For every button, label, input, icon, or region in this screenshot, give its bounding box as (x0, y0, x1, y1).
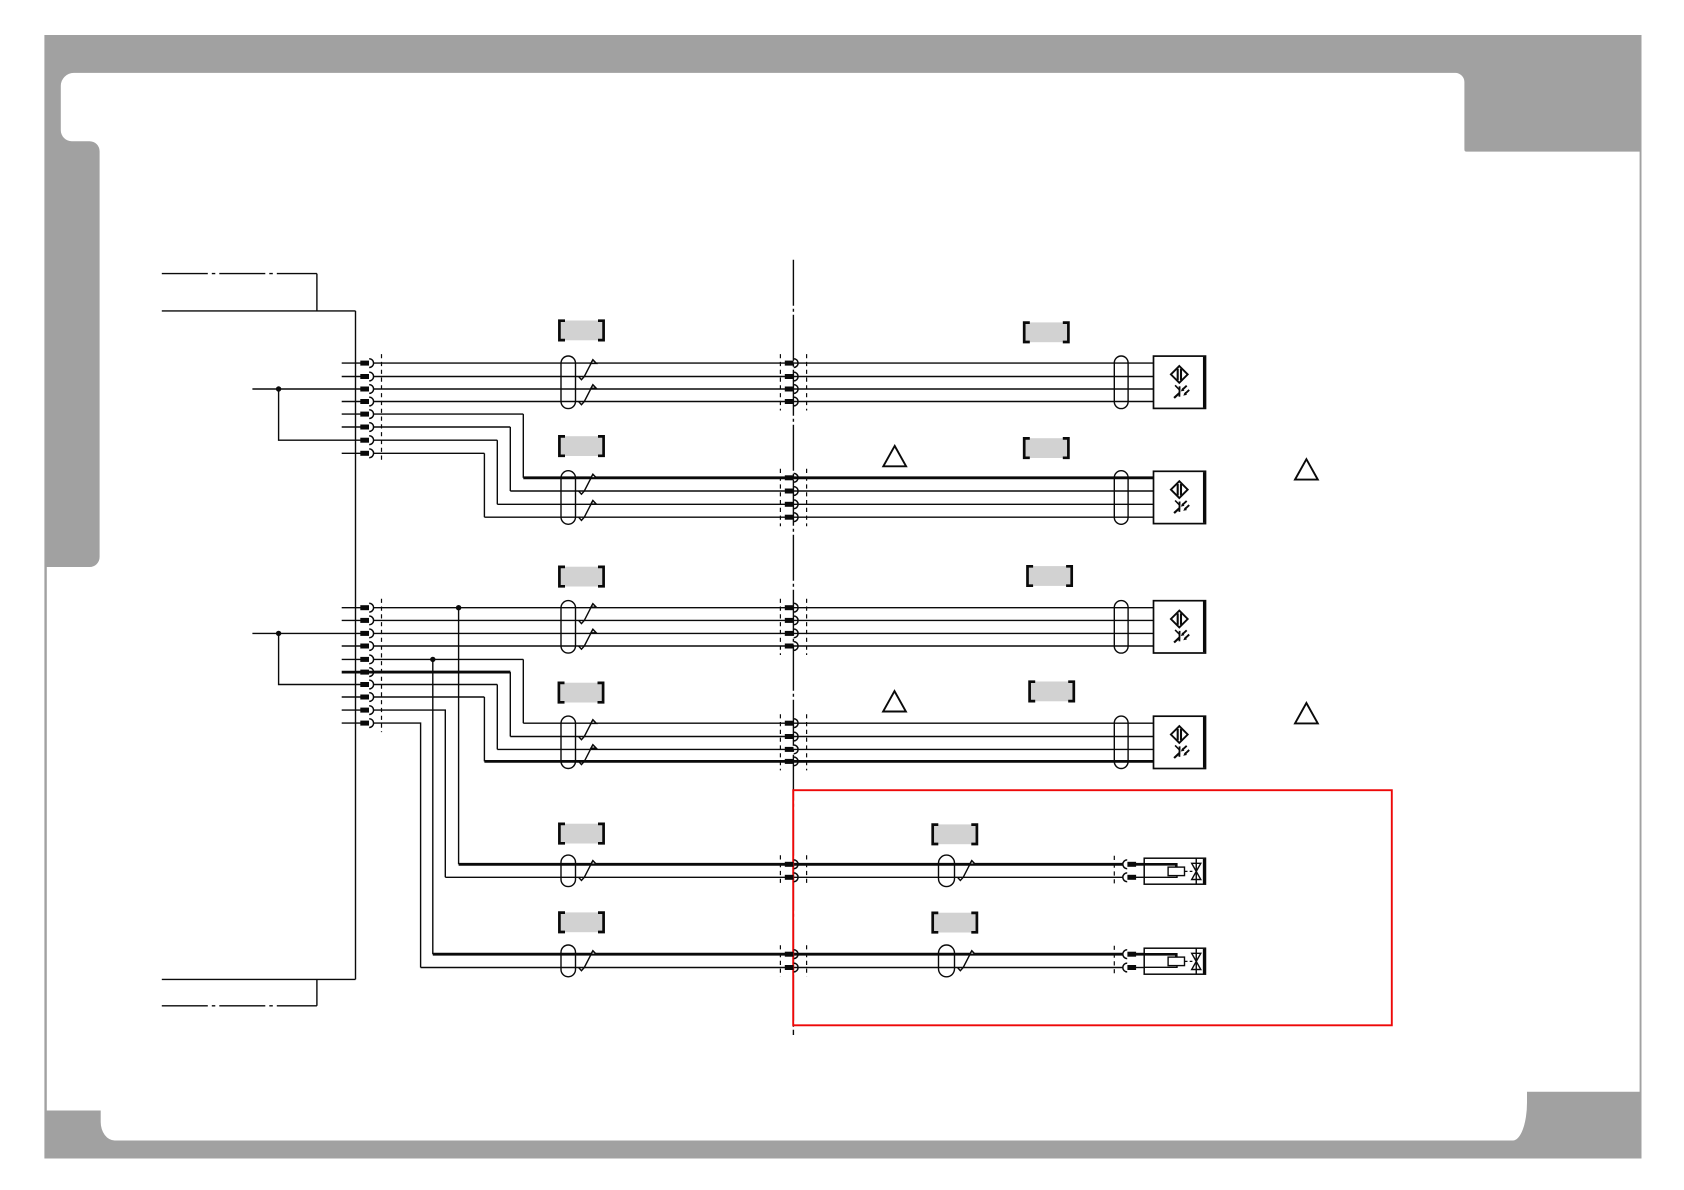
cable tie label R1 (1024, 322, 1068, 342)
wire run5-B to solenoid SL1 (445, 876, 1123, 878)
wire run2-3 horizontal from CN1 pin 7 (374, 439, 498, 441)
wire run2-4 vertical drop (483, 453, 485, 517)
input wire to CN1 pin 3 (252, 388, 361, 390)
wire run3-3 CN2 pin 3 to sensor PS3 (374, 632, 1154, 634)
connector CN1 pin 3 (360, 385, 373, 394)
connector CN2 pin 10 (360, 719, 373, 728)
red highlight outline around solenoid circuits (793, 790, 1392, 1025)
wire run4-4 vertical drop (483, 697, 485, 761)
wire run4-3 to sensor PS4 (497, 748, 1153, 750)
cable clamp right run3 (1114, 601, 1128, 654)
cable tie label L2 (559, 436, 603, 456)
connector J6 inline pin 1 (785, 950, 798, 959)
wire SL2 pin1 to body (1136, 953, 1144, 956)
cable tie label M5 (933, 824, 977, 844)
photo sensor PS1 (1154, 356, 1206, 408)
warning triangle 2 (1295, 459, 1318, 479)
wire run2-1 to sensor PS2 (523, 476, 1153, 479)
wire run4-2 horizontal from CN2 pin 6 (374, 671, 511, 674)
wire stub CN2 pin 1 (342, 607, 361, 609)
harness box 1 right edge (316, 274, 318, 311)
wire run2-2 horizontal from CN1 pin 6 (374, 426, 511, 428)
wire run5-A to solenoid SL1 (459, 863, 1123, 866)
connector J1 boundary dashes left (779, 354, 781, 410)
wire run4-4 horizontal from CN2 pin 8 (374, 696, 485, 698)
cable tie label L4 (559, 683, 603, 703)
junction node on CN1 pin 3 wire (276, 386, 281, 391)
connector CN2 pin 2 (360, 616, 373, 625)
harness box 2 right edge (316, 979, 318, 1005)
connector J4 inline pin 1 (785, 719, 798, 728)
solenoid SL2 pin 2 (1123, 963, 1136, 972)
harness box 2 bottom edge (dash-dot) (162, 1005, 317, 1007)
cable tie label R4 (1030, 682, 1074, 702)
connector J5 inline pin 1 (785, 860, 798, 869)
wire stub CN2 pin 8 (342, 696, 361, 698)
twist mark run4 pair B (579, 745, 597, 765)
harness box 1 bottom edge / feed to bus (162, 310, 356, 312)
twist mark run1 pair A (579, 360, 597, 380)
twist mark run2 pair B (579, 501, 597, 521)
warning triangle 1 (883, 446, 906, 466)
connector J3 inline pin 1 (785, 603, 798, 612)
wire SL2 pin2 to body (1136, 967, 1144, 969)
connector J5 boundary dashes right (806, 855, 808, 886)
solenoid SL1 body (1144, 858, 1205, 884)
wire run6-A vertical from junction (432, 659, 434, 954)
solenoid SL2 connector dashes (1113, 946, 1115, 976)
wire stub CN2 pin 2 (342, 619, 361, 621)
cable clamp left run5 (561, 855, 576, 887)
wire run5-B from CN2 pin 9 (374, 710, 446, 877)
wire run2-1 horizontal from CN1 pin 5 (374, 413, 524, 415)
harness box 2 top edge / feed from bus (162, 978, 356, 980)
connector CN1 boundary (dashed) (381, 354, 383, 462)
connector J2 inline pin 3 (785, 500, 798, 509)
cable clamp left run2 (561, 471, 576, 525)
cable clamp left run4 (561, 716, 576, 768)
connector J6 boundary dashes right (806, 945, 808, 976)
cable tie label R3 (1028, 566, 1072, 586)
connector J4 inline pin 3 (785, 745, 798, 754)
connector J2 inline pin 2 (785, 487, 798, 496)
twist mark run5 left (579, 861, 597, 881)
wire run2-4 to sensor PS2 (484, 516, 1153, 518)
twist mark run3 pair B (579, 629, 597, 649)
wire run4-2 to sensor PS4 (510, 736, 1153, 738)
harness box 1 top edge (dash-dot) (162, 273, 317, 275)
wire run3-4 CN2 pin 4 to sensor PS3 (374, 645, 1154, 647)
cable tie label R2 (1024, 438, 1068, 458)
warning triangle 3 (883, 691, 906, 711)
wire run6-A to solenoid SL2 (433, 953, 1123, 956)
wire run6-B from CN2 pin 10 (374, 723, 421, 967)
wire run4-1 to sensor PS4 (523, 722, 1153, 724)
cable clamp right run1 (1114, 356, 1128, 409)
wire run4-1 vertical drop (522, 659, 524, 723)
cable clamp right run4 (1114, 716, 1128, 768)
connector CN2 pin 6 (360, 668, 373, 677)
connector J3 boundary dashes right (806, 599, 808, 655)
wire run5-A vertical from junction (458, 608, 460, 865)
wire stub CN1 pin 1 (342, 362, 361, 364)
connector J3 inline pin 3 (785, 629, 798, 638)
warning triangle 4 (1295, 703, 1318, 723)
cable tie label L1 (559, 321, 603, 341)
wire run1-4 CN1 pin 4 to sensor PS1 (374, 401, 1154, 403)
connector CN2 pin 1 (360, 603, 373, 612)
twist mark run5 mid (958, 861, 976, 881)
connector CN1 pin 4 (360, 397, 373, 406)
twist mark run4 pair A (579, 720, 597, 740)
connector CN1 pin 2 (360, 372, 373, 381)
junction node run4-1 to solenoid SL2 branch (430, 657, 435, 662)
cable clamp mid run6 (939, 945, 955, 977)
connector J2 boundary dashes right (806, 469, 808, 526)
cable clamp left run3 (561, 601, 576, 654)
branch wire to CN1 pin 7 (279, 389, 361, 440)
cable tie label L6 (559, 912, 603, 932)
wire stub CN2 pin 9 (342, 709, 361, 711)
solenoid SL1 pin 1 (1123, 860, 1136, 869)
wire run1-3 CN1 pin 3 to sensor PS1 (374, 388, 1154, 390)
connector J6 inline pin 2 (785, 963, 798, 972)
wire run4-1 horizontal from CN2 pin 5 (374, 658, 524, 660)
twist mark run6 left (579, 951, 597, 971)
wire stub CN1 pin 8 (342, 452, 361, 454)
wire run1-2 CN1 pin 2 to sensor PS1 (374, 376, 1154, 378)
connector CN1 pin 7 (360, 436, 373, 445)
twist mark run1 pair B (579, 385, 597, 405)
wire stub CN2 pin 10 (342, 722, 361, 724)
cable clamp mid run5 (939, 855, 955, 887)
cable tie label L5 (559, 824, 603, 844)
connector J3 inline pin 2 (785, 616, 798, 625)
wire SL1 pin2 to body (1136, 876, 1144, 878)
connector J3 inline pin 4 (785, 642, 798, 651)
photo sensor PS3 (1154, 601, 1206, 653)
connector CN1 pin 6 (360, 423, 373, 432)
twist mark run6 mid (958, 951, 976, 971)
cable clamp right run2 (1114, 471, 1128, 525)
connector J2 boundary dashes left (779, 469, 781, 526)
wire stub CN1 pin 6 (342, 426, 361, 428)
input wire to CN2 pin 3 (252, 632, 361, 634)
wire run2-3 vertical drop (496, 440, 498, 504)
twist mark run3 pair A (579, 604, 597, 624)
cable tie label L3 (559, 567, 603, 587)
photo sensor PS4 (1154, 716, 1206, 768)
wire run6-B to solenoid SL2 (421, 967, 1123, 969)
connector J4 boundary dashes left (779, 714, 781, 770)
cable clamp left run6 (561, 945, 576, 977)
wire run3-1 CN2 pin 1 to sensor PS3 (374, 607, 1154, 609)
wire stub CN2 pin 4 (342, 645, 361, 647)
cable tie label M6 (933, 913, 977, 933)
connector CN1 pin 8 (360, 449, 373, 458)
connector J1 inline pin 4 (785, 397, 798, 406)
wire run2-4 horizontal from CN1 pin 8 (374, 452, 485, 454)
connector J1 boundary dashes right (806, 354, 808, 410)
connector J1 inline pin 1 (785, 359, 798, 368)
wire run4-3 vertical drop (496, 685, 498, 750)
connector CN2 pin 4 (360, 642, 373, 651)
connector CN2 pin 9 (360, 706, 373, 715)
connector J5 inline pin 2 (785, 873, 798, 882)
solenoid SL1 connector dashes (1113, 856, 1115, 886)
wire stub CN1 pin 5 (342, 413, 361, 415)
wire run4-4 to sensor PS4 (484, 760, 1153, 763)
connector CN2 pin 8 (360, 693, 373, 702)
photo sensor PS2 (1154, 471, 1206, 523)
wire run2-2 to sensor PS2 (510, 490, 1153, 492)
connector CN2 pin 5 (360, 655, 373, 664)
connector J3 boundary dashes left (779, 599, 781, 655)
connector J4 boundary dashes right (806, 714, 808, 770)
connector CN1 pin 5 (360, 410, 373, 419)
connector J1 inline pin 2 (785, 372, 798, 381)
twist mark run2 pair A (579, 474, 597, 494)
solenoid SL2 body (1144, 948, 1205, 974)
wire run3-2 CN2 pin 2 to sensor PS3 (374, 619, 1154, 621)
wire run4-2 vertical drop (509, 672, 511, 736)
connector J2 inline pin 4 (785, 513, 798, 522)
wire run2-2 vertical drop (509, 427, 511, 491)
connector CN2 pin 3 (360, 629, 373, 638)
connector J4 inline pin 2 (785, 732, 798, 741)
main harness bus wire (355, 311, 357, 980)
wire run4-3 horizontal from CN2 pin 7 (374, 684, 498, 686)
wire CN2 pin 6 feed (heavy) (342, 671, 511, 674)
solenoid SL2 pin 1 (1123, 950, 1136, 959)
connector CN2 boundary (dashed) (381, 599, 383, 732)
wire run2-1 vertical drop (522, 414, 524, 478)
wire stub CN1 pin 4 (342, 401, 361, 403)
branch wire to CN2 pin 7 (279, 633, 361, 684)
junction node run3-1 to solenoid SL1 branch (456, 605, 461, 610)
connector CN2 pin 7 (360, 680, 373, 689)
connector J4 inline pin 4 (785, 757, 798, 766)
connector J6 boundary dashes left (779, 945, 781, 976)
connector J5 boundary dashes left (779, 855, 781, 886)
wire run1-1 CN1 pin 1 to sensor PS1 (374, 362, 1154, 364)
wire stub CN1 pin 2 (342, 376, 361, 378)
connector J2 inline pin 1 (785, 473, 798, 482)
connector J1 inline pin 3 (785, 385, 798, 394)
wire stub CN2 pin 5 (342, 658, 361, 660)
solenoid SL1 pin 2 (1123, 873, 1136, 882)
junction node on CN2 pin 3 wire (276, 631, 281, 636)
wire run2-3 to sensor PS2 (497, 503, 1153, 505)
wire SL1 pin1 to body (1136, 863, 1144, 866)
cable clamp left run1 (561, 356, 576, 409)
connector CN1 pin 1 (360, 359, 373, 368)
board boundary line (dash-dot) (792, 260, 794, 1035)
